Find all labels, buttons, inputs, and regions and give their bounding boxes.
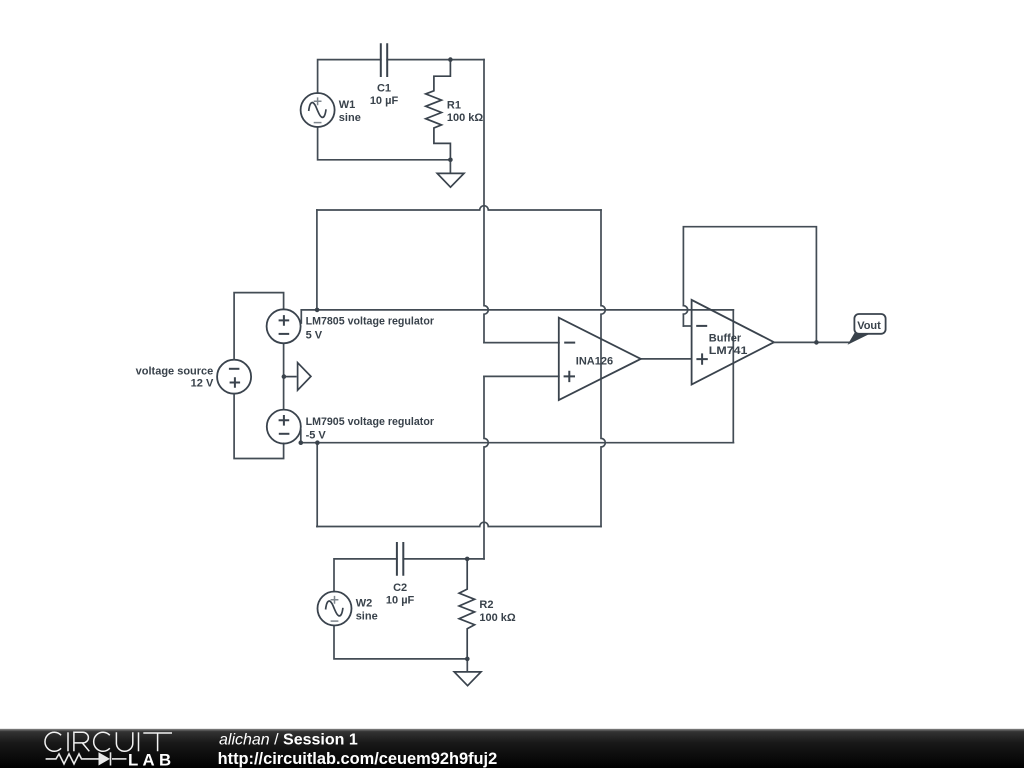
- wire INA+ input: [484, 375, 559, 377]
- node dot mid regulators: [282, 374, 287, 379]
- resistor R2: [459, 559, 475, 659]
- op-amp U2 Buffer LM741: [692, 300, 774, 385]
- wire buffer feedback: [683, 227, 849, 343]
- svg-text:R2: R2: [479, 599, 493, 611]
- wire rect top edge: [317, 206, 601, 210]
- wire regulators middle: [283, 343, 285, 409]
- wire buffer output: [774, 341, 850, 343]
- resistor R1: [426, 60, 451, 160]
- logo schematic: resistor + diode: [46, 752, 127, 765]
- source W1: [301, 93, 335, 127]
- svg-text:alichan / Session 1: alichan / Session 1: [219, 732, 358, 749]
- op-amp U1 INA126: [559, 318, 641, 400]
- svg-text:100 kΩ: 100 kΩ: [479, 612, 516, 624]
- node dot LM7905 stub / -5V rail: [299, 440, 304, 445]
- svg-text:-5 V: -5 V: [306, 430, 327, 442]
- capacitor C2: [397, 542, 403, 576]
- logo CIRCUIT: [45, 732, 172, 751]
- source W2: [318, 592, 352, 626]
- svg-text:sine: sine: [356, 610, 378, 622]
- wire W2 bottom: [334, 626, 467, 659]
- wire rect right edge: [601, 210, 605, 527]
- svg-text:http://circuitlab.com/ceuem92h: http://circuitlab.com/ceuem92h9fuj2: [218, 750, 498, 768]
- svg-text:W2: W2: [356, 598, 373, 610]
- wire right vertical upper (top section to INA- input): [484, 60, 559, 343]
- wire LM7905 output stub: [300, 430, 302, 443]
- svg-text:Vout: Vout: [857, 320, 881, 332]
- wire W1 top: [318, 60, 381, 93]
- regulator LM7905: [267, 410, 301, 444]
- svg-text:sine: sine: [339, 112, 361, 124]
- wire supply right vertical: [732, 310, 734, 443]
- wire left loop top: [234, 293, 301, 459]
- wire +5V rail: [301, 206, 734, 559]
- wire LM7805 output stub: [300, 310, 302, 323]
- node dot C2/R2 top: [465, 557, 470, 562]
- wire rect left upper segment: [316, 210, 318, 310]
- ground G2: [454, 672, 481, 686]
- node dot (R1 bottom / ground): [448, 158, 453, 163]
- wire C1 to node A: [387, 59, 450, 61]
- node A dot (C1/R1 top): [448, 57, 453, 62]
- svg-text:Buffer: Buffer: [709, 333, 742, 345]
- svg-text:5 V: 5 V: [306, 330, 323, 342]
- ground G1: [437, 173, 464, 187]
- wire rect left lower segment: [316, 443, 318, 527]
- svg-text:voltage source: voltage source: [136, 365, 214, 377]
- wire INA output: [641, 358, 692, 360]
- svg-text:LAB: LAB: [128, 750, 175, 768]
- node dot -5V rail / rect left: [315, 440, 320, 445]
- node dot output/feedback: [814, 340, 819, 345]
- svg-text:100 kΩ: 100 kΩ: [447, 112, 484, 124]
- svg-text:C1: C1: [377, 83, 391, 95]
- wire rect bottom edge: [317, 522, 601, 526]
- svg-text:R1: R1: [447, 100, 461, 112]
- node dot +5V rail / rect left: [315, 308, 320, 313]
- wire W2 top: [334, 559, 484, 671]
- capacitor C1: [381, 43, 387, 77]
- node dot R2 bottom / ground: [465, 657, 470, 662]
- regulator LM7805: [267, 309, 301, 343]
- svg-text:10 µF: 10 µF: [370, 95, 399, 107]
- svg-text:12 V: 12 V: [191, 378, 214, 390]
- wire ground stem G2: [466, 659, 468, 671]
- svg-text:LM741: LM741: [709, 345, 748, 357]
- wire left loop bottom: [234, 394, 284, 459]
- voltage source V1 12V: [217, 360, 251, 394]
- svg-text:W1: W1: [339, 99, 356, 111]
- svg-text:INA126: INA126: [576, 356, 613, 368]
- svg-text:C2: C2: [393, 582, 407, 594]
- wire ground stem G1: [449, 160, 451, 173]
- svg-text:LM7905 voltage regulator: LM7905 voltage regulator: [306, 416, 435, 428]
- flag Vout: [849, 314, 886, 344]
- wire buffer - input: [683, 325, 691, 327]
- wire INA- input: [484, 342, 559, 344]
- wire -5V rail: [301, 442, 734, 444]
- wire right vertical lower (INA+ input to bottom section): [484, 376, 488, 559]
- svg-text:10 µF: 10 µF: [386, 594, 415, 606]
- svg-text:LM7805 voltage regulator: LM7805 voltage regulator: [306, 316, 435, 328]
- ground flag (rotated right): [284, 363, 311, 391]
- wire W1 bottom: [318, 127, 451, 160]
- wire node A to top-right corner: [450, 59, 484, 61]
